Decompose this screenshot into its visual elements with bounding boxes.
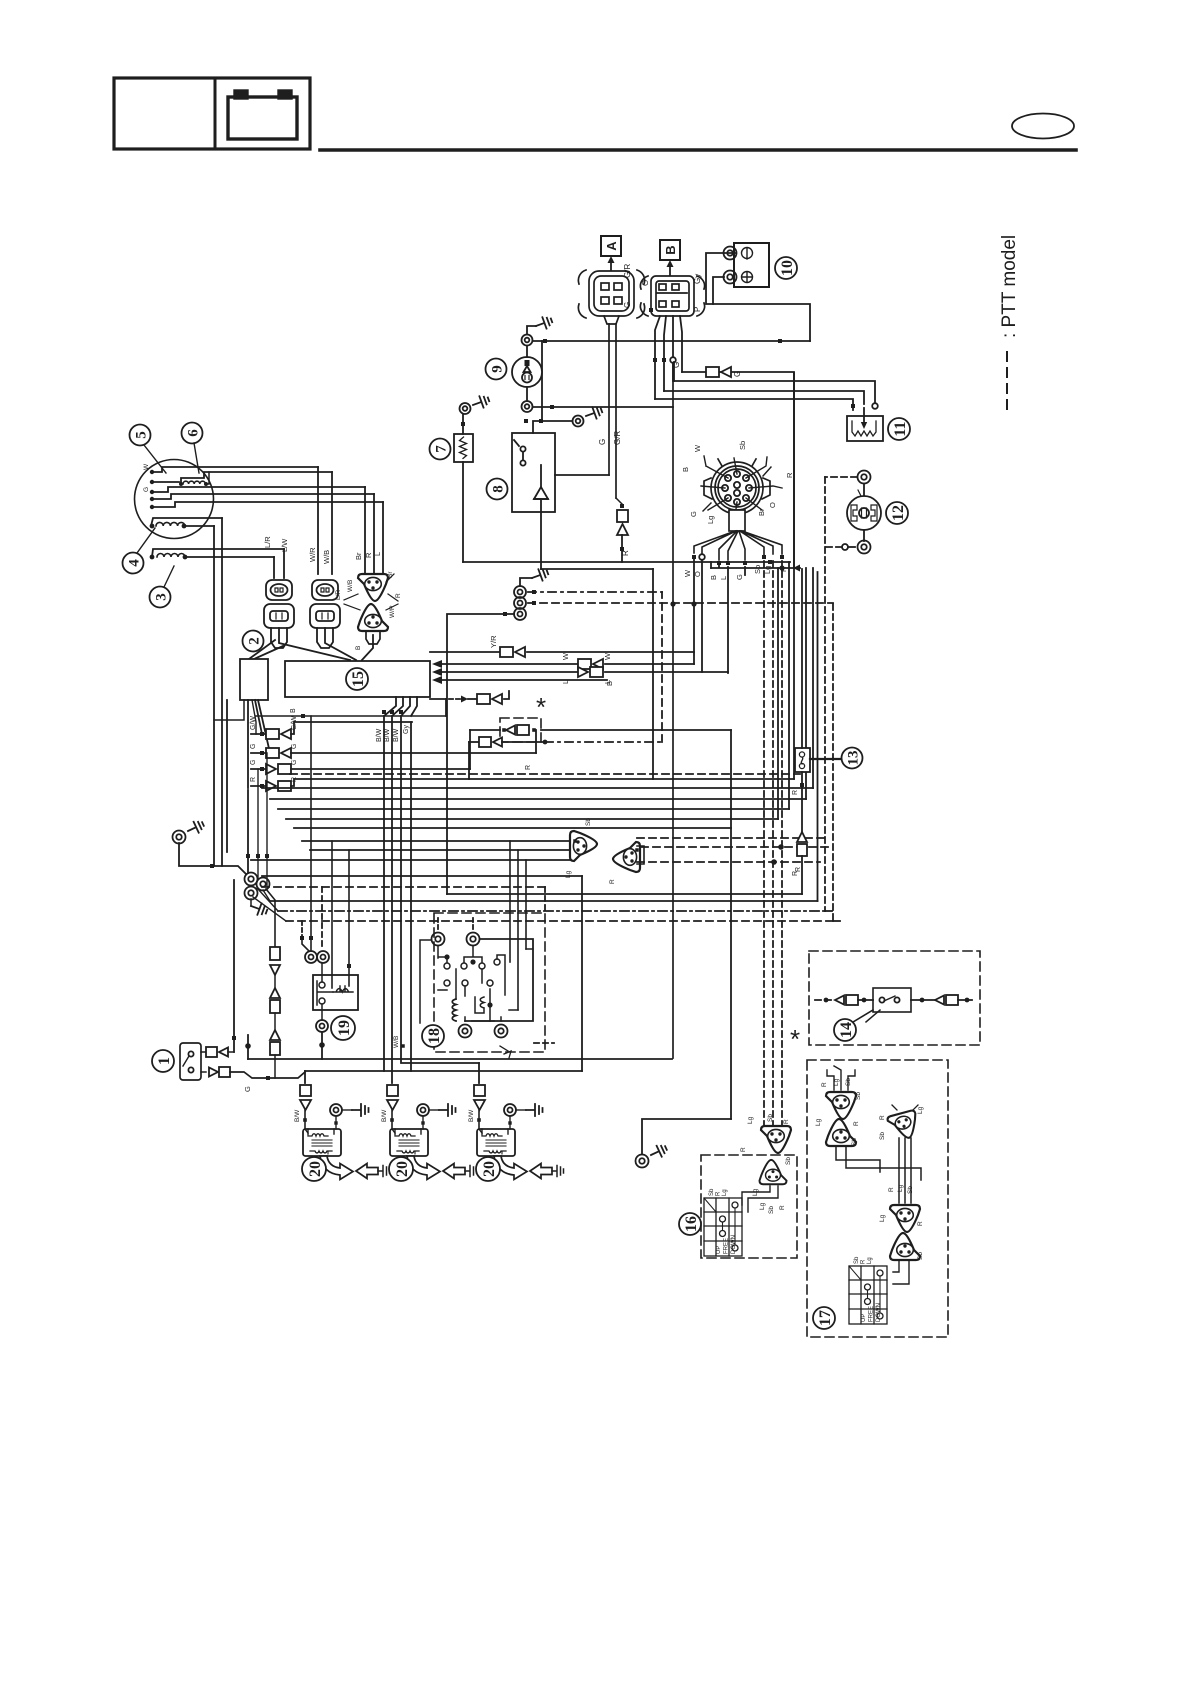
wire x653 down [652, 569, 654, 779]
wire gnd to cluster [179, 843, 246, 874]
coil input bullet [387, 1085, 398, 1110]
wire 16 a [742, 1186, 770, 1205]
wire [468, 698, 477, 700]
svg-text:B/W: B/W [376, 728, 383, 742]
legend dashed sample [1006, 352, 1008, 412]
wire to coil1 [304, 1071, 306, 1083]
wire [321, 1004, 323, 1020]
svg-text:B/W: B/W [384, 728, 391, 742]
svg-text:Sb: Sb [585, 818, 592, 826]
wire arrow segment [711, 567, 800, 569]
junction [245, 1043, 251, 1049]
wire x582 [581, 876, 583, 1071]
svg-text:20: 20 [307, 1161, 324, 1177]
svg-text:FREE: FREE [724, 1238, 730, 1254]
svg-text:B: B [355, 646, 362, 650]
svg-text:Lg: Lg [722, 1189, 728, 1196]
ring trio c [514, 608, 526, 620]
junction [620, 547, 624, 551]
wire [504, 691, 509, 699]
label circle 14 [834, 1019, 856, 1041]
junction [771, 859, 777, 865]
wire into 18 e [525, 860, 527, 949]
junction [399, 710, 403, 714]
starter relay 19 [313, 975, 358, 1010]
label circle 6 [182, 423, 203, 444]
dashed 14 wire [815, 999, 835, 1001]
wire to gnd 16 [642, 1119, 731, 1154]
wire main center vertical [672, 363, 674, 1058]
svg-text:5: 5 [133, 431, 149, 439]
connector pair W/R-W/B [310, 580, 340, 648]
wire [201, 1051, 206, 1053]
tail 2 [325, 628, 356, 660]
wire [263, 890, 270, 901]
wire x731 [730, 730, 732, 1119]
svg-text:Sb: Sb [917, 1252, 924, 1260]
wire [253, 897, 286, 921]
junction [532, 601, 536, 605]
ring terminal [636, 1155, 649, 1168]
wire Br2 [502, 741, 545, 743]
dashed drop ring b [321, 887, 323, 950]
dashed into 18 b [472, 918, 474, 932]
wire [812, 568, 814, 788]
svg-text:Y/R: Y/R [489, 635, 498, 648]
label circle 5 [130, 425, 151, 446]
svg-text:B: B [681, 467, 690, 472]
wire [863, 530, 865, 541]
fuse b [270, 988, 280, 1013]
label circle 15 [346, 668, 368, 690]
wire to 11 [674, 381, 875, 404]
svg-text:W: W [693, 444, 702, 452]
switch contacts 14 [866, 996, 900, 1022]
wire [342, 1109, 352, 1111]
wire left bundle [213, 526, 215, 866]
junction [717, 561, 721, 565]
wire y1071 [305, 1070, 582, 1072]
wire [858, 999, 873, 1001]
wire [526, 346, 528, 357]
ground [534, 315, 554, 332]
wire B/W jog [411, 697, 417, 716]
wire to coil3 [478, 1063, 480, 1083]
wire [727, 567, 729, 673]
spark plug arrow [407, 1156, 465, 1180]
bullet connector [266, 748, 291, 758]
dashed Lg drop [763, 561, 765, 1126]
ground [439, 1104, 456, 1116]
bullet in * [506, 725, 529, 735]
svg-text:B: B [605, 681, 614, 686]
svg-text:R: R [879, 1115, 886, 1120]
leader 3 [164, 566, 174, 587]
wire G/W right [291, 722, 412, 734]
relay 18 bottom ring a [459, 1025, 472, 1038]
coil ground ring [504, 1104, 516, 1116]
wire 17 t2 [893, 1260, 909, 1284]
wire to coil [478, 1110, 480, 1129]
wire into 19 coil b [348, 850, 350, 986]
svg-text:R: R [792, 790, 799, 795]
junction [824, 998, 829, 1003]
wire [317, 467, 319, 574]
junction [260, 767, 264, 771]
rectifier regulator 10 [734, 243, 769, 287]
junction [780, 555, 784, 559]
junction [662, 358, 666, 362]
svg-text:W: W [561, 652, 570, 660]
wire [863, 484, 865, 496]
svg-text:G/R: G/R [623, 264, 632, 278]
dash y699 [449, 698, 460, 700]
junction [543, 740, 548, 745]
coil3 left [152, 549, 284, 557]
thermo sensor 9 [512, 357, 542, 387]
bullet Br [479, 737, 502, 747]
svg-text:: PTT model: : PTT model [999, 235, 1020, 338]
svg-text:*: * [790, 1024, 800, 1054]
wire left bundle [221, 518, 223, 866]
wire * right [541, 729, 731, 731]
wire y699 [430, 698, 446, 700]
dashed from 3P [637, 837, 825, 839]
svg-text:Lg: Lg [706, 516, 715, 524]
bullet connector [477, 694, 502, 704]
pulser out [205, 472, 209, 484]
stator tap [150, 470, 154, 474]
svg-text:G: G [735, 574, 744, 580]
label circle 16 [679, 1213, 701, 1235]
svg-text:8: 8 [490, 485, 506, 493]
ring terminal [724, 271, 737, 284]
svg-text:R: R [715, 1191, 721, 1196]
3P pair 17 bottom [890, 1205, 920, 1232]
junction [502, 728, 506, 732]
resistor 7 [454, 434, 473, 462]
junction [620, 504, 624, 508]
fan [252, 700, 256, 734]
coil4 left link [151, 518, 222, 526]
wire L [152, 502, 383, 507]
junction [762, 555, 766, 559]
19 internals [317, 981, 353, 1005]
junction [503, 612, 507, 616]
junction [256, 854, 260, 858]
3P connector 16 upper [761, 1126, 791, 1153]
round connector neck [729, 510, 745, 531]
svg-text:R: R [395, 593, 402, 598]
svg-text:14: 14 [838, 1022, 855, 1038]
svg-text:Sb: Sb [738, 441, 747, 450]
svg-text:Sb: Sb [851, 1138, 858, 1146]
relay 18 frame [465, 939, 533, 1021]
junction [300, 936, 304, 940]
wire [605, 663, 694, 665]
svg-text:G: G [689, 511, 698, 517]
svg-text:R: R [917, 1221, 924, 1226]
svg-text:R: R [525, 765, 532, 770]
svg-text:FREE: FREE [869, 1306, 875, 1322]
wire [274, 1055, 276, 1078]
arrow head [793, 565, 800, 572]
bullet 14 right [935, 995, 958, 1005]
cap 12 body [847, 496, 881, 530]
arrow right [461, 696, 468, 703]
wire * [470, 729, 500, 731]
svg-text:Sb: Sb [785, 1157, 792, 1165]
svg-text:G/R: G/R [613, 431, 622, 445]
terminal circle [842, 544, 848, 550]
wire 16 b [748, 1186, 778, 1212]
wire [541, 341, 543, 421]
svg-text:G: G [250, 744, 257, 749]
tail 1 [279, 628, 350, 660]
wire [817, 572, 819, 901]
svg-text:W: W [683, 569, 692, 577]
svg-text:A: A [604, 241, 619, 251]
wire 1 up [233, 880, 235, 1052]
wire W/B [181, 472, 332, 484]
svg-text:L/R: L/R [335, 590, 342, 600]
junction [532, 728, 536, 732]
label circle 2 [243, 631, 264, 652]
label circle 4 [123, 553, 144, 574]
ring above 7 [460, 403, 471, 414]
wire [228, 1051, 234, 1053]
wire into 18 d [517, 850, 519, 1010]
wire y850 [310, 849, 573, 851]
junction [204, 482, 208, 486]
junction [726, 561, 730, 565]
wire [274, 975, 276, 988]
svg-text:G: G [243, 1086, 252, 1092]
dashed R [290, 773, 800, 775]
ground [352, 1104, 369, 1116]
svg-text:P: P [693, 307, 702, 312]
bullet connector [266, 781, 291, 791]
dash stub 18b [544, 887, 546, 913]
connector A body [578, 270, 644, 324]
junction [470, 959, 475, 964]
bullet connector [266, 764, 291, 774]
svg-text:Lg: Lg [759, 1202, 766, 1210]
wire R right [291, 779, 794, 786]
junction [635, 848, 639, 852]
svg-text:W/B: W/B [322, 550, 331, 564]
svg-text:17: 17 [817, 1310, 834, 1326]
wire Gy [410, 722, 412, 1071]
wire [788, 562, 790, 809]
svg-text:Br: Br [757, 508, 766, 516]
connector fan [694, 531, 782, 560]
PTT switch dashed 16 [701, 1155, 797, 1258]
coil4 out [184, 525, 214, 527]
ring top of 12 [858, 471, 871, 484]
stator circle [135, 460, 214, 539]
ring trio b [514, 597, 526, 609]
cluster ring a [245, 873, 258, 886]
svg-text:B/W: B/W [393, 728, 400, 742]
wire [273, 557, 275, 578]
wire y828 [294, 827, 731, 829]
terminal circle [699, 554, 705, 560]
header frame [114, 78, 310, 149]
junction [210, 864, 214, 868]
wire [516, 1109, 526, 1111]
round connector body [704, 459, 770, 514]
label circle 19 [331, 1016, 355, 1040]
svg-text:B: B [290, 708, 297, 713]
PTT switch table 17 [849, 1266, 887, 1324]
wire to 11 [655, 399, 853, 410]
dashed y887 [262, 886, 545, 888]
wire y894 [447, 893, 802, 895]
tail to 2 [249, 640, 275, 659]
plus mark [742, 272, 753, 283]
svg-text:G: G [623, 302, 632, 308]
wire 17 e [910, 1138, 912, 1203]
wire 13 to bottom [801, 856, 803, 894]
relay dashed 18 [434, 913, 545, 1052]
resistor zigzag [460, 437, 467, 459]
bullet connector [706, 367, 731, 377]
13 internals [799, 752, 804, 769]
wire [331, 472, 333, 574]
svg-text:Sb: Sb [709, 1188, 715, 1196]
junction [779, 565, 784, 570]
svg-text:Lg: Lg [815, 1118, 822, 1126]
spark gap ground [378, 1166, 390, 1177]
ground [471, 394, 491, 411]
junction [653, 358, 657, 362]
svg-text:Lg: Lg [833, 1078, 840, 1086]
PTT relay option box 14 [809, 951, 980, 1045]
svg-text:B/W: B/W [294, 1109, 301, 1122]
ignition coil 20 [390, 1129, 428, 1156]
label circle 7 [430, 439, 451, 460]
svg-text:Sb: Sb [879, 1132, 886, 1140]
wire G [251, 752, 266, 754]
3P pair 17 top [826, 1092, 856, 1119]
relay 18 bottom ring b [495, 1025, 508, 1038]
fan [255, 700, 262, 734]
wire [526, 387, 528, 401]
fuse a [270, 947, 280, 975]
ring 19 a [305, 951, 317, 963]
wire [383, 716, 385, 1071]
spark gap ground [552, 1166, 564, 1177]
connector B label box [660, 240, 680, 260]
thermo switch 11 [847, 416, 883, 441]
dashed from 3P [641, 846, 831, 848]
dash stub [825, 910, 834, 912]
svg-text:DOWN: DOWN [731, 1235, 737, 1254]
wire R [152, 494, 374, 499]
bullet connector [500, 647, 525, 657]
wire 10 [713, 277, 724, 304]
wire to coil [391, 1110, 393, 1129]
connector pair Br-R-L [358, 574, 388, 601]
junction [532, 590, 536, 594]
wire Y/R [430, 651, 500, 653]
wire [462, 414, 464, 434]
wire drop ring a [310, 716, 312, 951]
junction [401, 1044, 405, 1048]
svg-text:W/B: W/B [347, 580, 354, 592]
wire G/W [251, 733, 266, 735]
wire [274, 1013, 276, 1030]
label circle 13 [842, 748, 863, 769]
wire from 2 [247, 700, 249, 788]
svg-text:UP: UP [716, 1246, 722, 1254]
wire [718, 562, 720, 567]
svg-text:Sb: Sb [768, 1206, 775, 1214]
dashed drop a [301, 921, 303, 936]
spark plug arrow [494, 1156, 552, 1180]
dash-dot y911 [278, 910, 825, 912]
bullet 1a [206, 1047, 228, 1057]
header divider [214, 78, 217, 149]
relay 18 terminal b [467, 933, 480, 946]
fuse holder 13 [795, 748, 810, 772]
svg-text:2: 2 [246, 637, 262, 645]
junction [421, 1121, 424, 1124]
svg-text:G: G [598, 439, 607, 445]
svg-text:*: * [536, 692, 546, 722]
wire [527, 326, 536, 334]
wire [664, 316, 666, 391]
wire B/W jog [401, 697, 410, 716]
wire 7 down [462, 462, 464, 562]
wire [535, 730, 537, 753]
junction [539, 419, 543, 423]
wire 10 to ground [706, 253, 810, 341]
label circle 17 [813, 1307, 835, 1329]
junction [266, 1076, 270, 1080]
svg-text:B: B [663, 245, 678, 254]
label circle 20 [302, 1157, 326, 1181]
connector B body [640, 276, 704, 316]
switch in 14 [873, 988, 911, 1012]
dashed to 12 [825, 476, 857, 478]
terminal circle [670, 357, 676, 363]
svg-text:Lg: Lg [879, 1214, 886, 1222]
svg-text:11: 11 [892, 421, 909, 436]
wire [858, 490, 861, 496]
wire 17 c [898, 1138, 900, 1203]
junction [309, 936, 313, 940]
svg-text:Lg: Lg [867, 1257, 873, 1264]
bullet connector [266, 729, 291, 739]
wire [615, 324, 617, 498]
CDI unit 15 [285, 661, 430, 697]
svg-text:R: R [860, 1259, 866, 1264]
svg-text:R: R [853, 1121, 860, 1126]
wire [509, 1116, 511, 1129]
dashed x825 [824, 477, 826, 911]
wire [321, 963, 323, 982]
junction [508, 1121, 511, 1124]
3P single 17 right [887, 1110, 921, 1142]
svg-text:G: G [250, 760, 257, 765]
coil ground ring [417, 1104, 429, 1116]
wire [283, 549, 285, 578]
wire [616, 498, 622, 504]
junction [691, 601, 696, 606]
junction [334, 1121, 337, 1124]
